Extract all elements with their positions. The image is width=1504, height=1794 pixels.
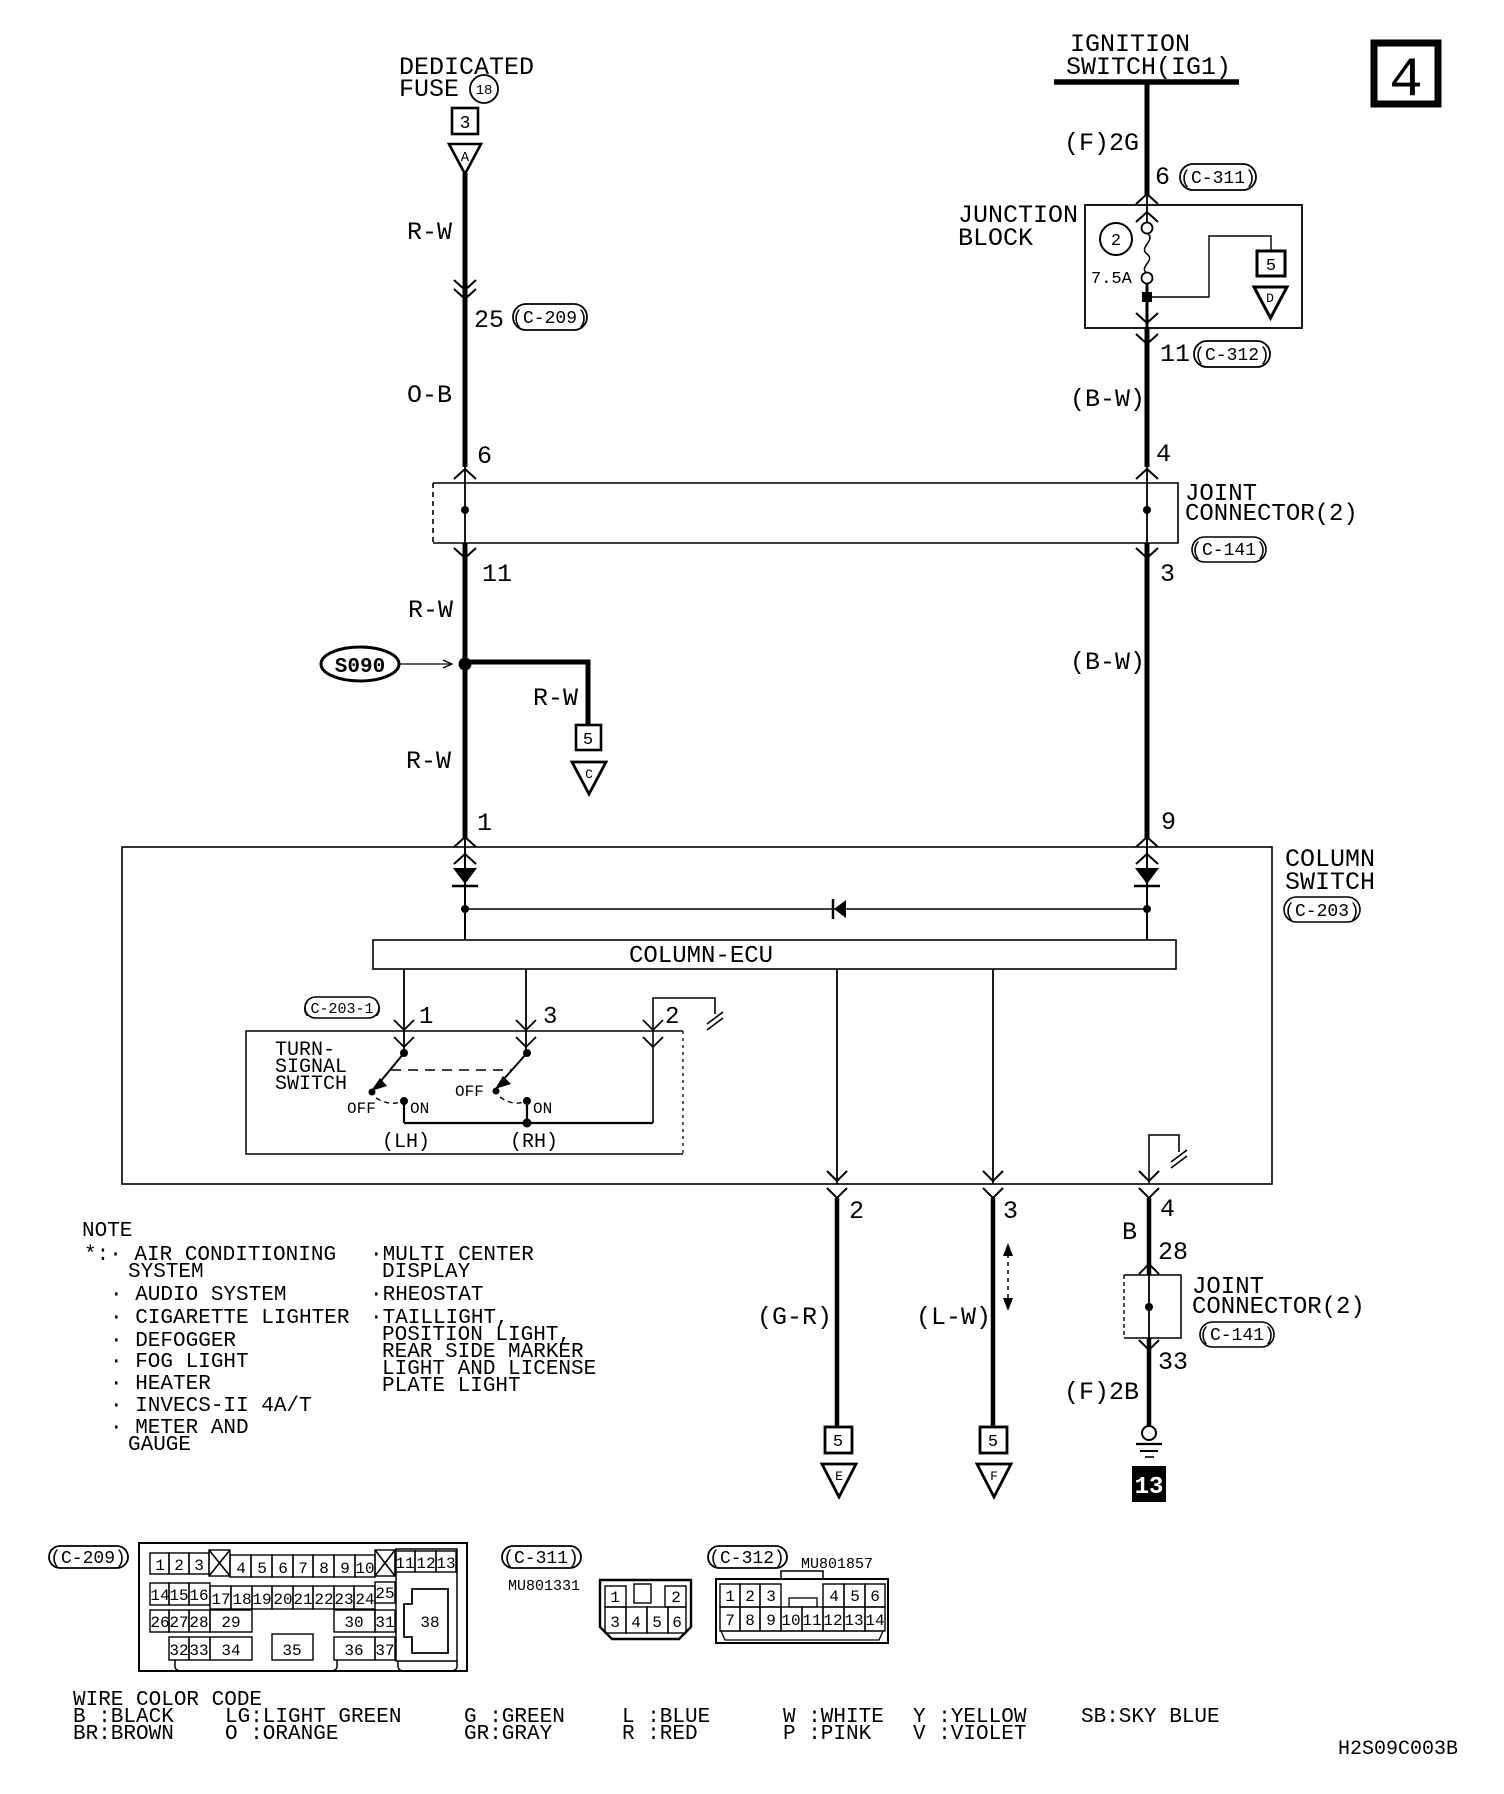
JOINT CONNECTOR (2) C-141 top box [433,483,1178,543]
diode middle pointing left [833,899,846,919]
svg-text:3: 3 [543,1004,557,1031]
svg-text:D: D [1266,291,1274,306]
svg-text:2: 2 [849,1197,864,1226]
svg-text:13: 13 [436,1555,455,1573]
svg-text:30: 30 [344,1614,363,1632]
svg-text:DISPLAY: DISPLAY [382,1261,471,1284]
svg-text:NOTE: NOTE [82,1220,132,1243]
svg-text:4: 4 [829,1588,839,1606]
WIRE COLOR CODE legend [73,1689,1220,1746]
C-311 pin cells [605,1584,686,1633]
svg-text:8: 8 [745,1612,755,1630]
connector label C-312 oval [1194,341,1270,367]
svg-text:· CIGARETTE LIGHTER: · CIGARETTE LIGHTER [110,1307,350,1330]
connector triangle E [822,1464,856,1497]
svg-text:3: 3 [1160,560,1175,589]
svg-text:PLATE LIGHT: PLATE LIGHT [382,1375,521,1398]
LH switch arm [371,1053,404,1091]
svg-text:SYSTEM: SYSTEM [128,1261,204,1284]
COLUMN SWITCH label [1285,845,1375,897]
svg-text:SWITCH: SWITCH [1285,868,1375,897]
svg-text:R :RED: R :RED [622,1723,698,1746]
svg-text:35: 35 [282,1642,301,1660]
svg-text:6: 6 [1155,163,1170,192]
svg-text:1: 1 [725,1588,735,1606]
splice S090 oval [321,647,399,681]
double chevron up at column switch entry right [1136,837,1158,864]
svg-text:BLOCK: BLOCK [958,224,1033,253]
C-209 row 1 pin numbers [155,1555,455,1578]
svg-text:F: F [990,1469,998,1484]
wire ECU to turn signal LH (pin 1) [403,969,405,1053]
svg-text:· AUDIO SYSTEM: · AUDIO SYSTEM [110,1284,286,1307]
connector label C-209 oval [512,304,588,330]
svg-text:P :PINK: P :PINK [783,1723,872,1746]
chassis ground slashes (pin4) [1171,1150,1187,1168]
svg-text:34: 34 [221,1642,240,1660]
COLUMN SWITCH box C-203 [122,847,1272,1184]
C-209 pin cells row 1 [150,1550,456,1577]
svg-text:2: 2 [174,1557,184,1575]
svg-text:14: 14 [150,1587,169,1605]
svg-text:4: 4 [1156,440,1171,469]
svg-text:(C-141): (C-141) [1199,1326,1275,1346]
mechanical link dashed line [391,1069,512,1071]
svg-text:26: 26 [150,1614,169,1632]
wire (F)2B to ground [1147,1338,1152,1426]
svg-text:(L-W): (L-W) [916,1303,991,1332]
svg-text:SB:SKY BLUE: SB:SKY BLUE [1081,1706,1220,1729]
terminal box 3 [452,108,478,134]
svg-text:4: 4 [1160,1195,1175,1224]
wire ECU to pin 2 output [836,969,838,1184]
svg-text:R-W: R-W [407,218,452,247]
svg-text:32: 32 [169,1642,188,1660]
svg-text:24: 24 [355,1591,374,1609]
svg-text:E: E [835,1469,843,1484]
internal bus wire between diodes [465,908,1147,910]
svg-text:31: 31 [375,1614,394,1632]
svg-text:5: 5 [850,1588,860,1606]
svg-text:25: 25 [474,306,504,335]
common wire to pin 2 [404,1122,653,1124]
svg-text:12: 12 [416,1555,435,1573]
svg-text:37: 37 [375,1642,394,1660]
svg-text:O :ORANGE: O :ORANGE [225,1723,338,1746]
svg-text:22: 22 [314,1591,333,1609]
C-209 rows 3-4 pin numbers [150,1614,394,1660]
chevrons down on wire 3 [516,1020,536,1047]
terminal box 5 (F) [980,1427,1007,1453]
svg-text:7: 7 [298,1560,308,1578]
svg-text:13: 13 [844,1612,863,1630]
fuse 7.5A wavy element [1144,233,1150,273]
svg-text:8: 8 [319,1560,329,1578]
svg-text:(F)2G: (F)2G [1064,129,1139,158]
double chevron up at column switch entry left [454,837,476,864]
right main wire middle thick [1145,543,1150,839]
svg-text:2: 2 [745,1588,755,1606]
connector label C-203-1 oval [301,997,382,1018]
svg-text:MU801331: MU801331 [508,1578,580,1595]
svg-text:14: 14 [865,1612,884,1630]
svg-text:COLUMN-ECU: COLUMN-ECU [629,943,773,970]
svg-text:33: 33 [1158,1348,1188,1377]
svg-text:2: 2 [1111,232,1121,251]
connector label C-311 oval [1180,164,1256,190]
svg-text:*:· AIR CONDITIONING: *:· AIR CONDITIONING [84,1244,336,1267]
svg-text:· INVECS-II 4A/T: · INVECS-II 4A/T [110,1395,312,1418]
node: left wire junction in joint connector [461,506,469,514]
svg-text:5: 5 [988,1433,998,1452]
svg-text:12: 12 [823,1612,842,1630]
chevron down below joint connector right [1136,548,1158,558]
svg-text:B: B [1122,1218,1137,1247]
LH switch pivot node [400,1049,408,1057]
joint connector(2) bottom label [1192,1274,1365,1321]
svg-text:11: 11 [482,560,512,589]
C-312 pin numbers [725,1588,884,1630]
svg-text:7.5A: 7.5A [1091,270,1133,289]
svg-text:· FOG LIGHT: · FOG LIGHT [110,1351,249,1374]
svg-text:S090: S090 [335,656,385,679]
svg-text:28: 28 [189,1614,208,1632]
svg-text:18: 18 [232,1591,251,1609]
connector triangle C [572,762,606,794]
node dot right bus [1143,905,1151,913]
connector C-311 pinout body [600,1580,691,1639]
svg-text:(C-203): (C-203) [1284,902,1360,922]
svg-text:6: 6 [278,1560,288,1578]
svg-text:17: 17 [211,1591,230,1609]
thin wire left into diode [464,839,466,940]
svg-text:5: 5 [1266,257,1276,276]
svg-text:3: 3 [460,114,471,134]
chevron up into joint connector right [1136,469,1158,479]
svg-text:11: 11 [395,1555,414,1573]
node junction dot in junction block [1142,292,1152,302]
svg-text:38: 38 [420,1614,439,1632]
svg-text:ON: ON [533,1100,552,1118]
svg-text:5: 5 [833,1433,843,1452]
branch wire R-W to terminal 5/C [465,662,588,725]
svg-text:4: 4 [1389,48,1423,112]
svg-text:7: 7 [725,1612,735,1630]
svg-text:V :VIOLET: V :VIOLET [913,1723,1026,1746]
wire RH ON to common [526,1101,528,1123]
chevron down below junction block [1136,334,1158,344]
chevron down at junction block bottom [1136,313,1158,323]
svg-text:4: 4 [236,1560,246,1578]
C-209 keying X marks [209,1550,395,1576]
svg-text:11: 11 [1160,340,1190,369]
diode left (anode from pin 1) [452,868,478,886]
svg-text:3: 3 [194,1557,204,1575]
svg-text:5: 5 [583,731,593,750]
dashed bidirectional arrow [1003,1243,1013,1311]
chevron down below joint connector left [454,548,476,558]
node dot bottom joint connector [1145,1303,1153,1311]
svg-text:CONNECTOR(2): CONNECTOR(2) [1185,501,1358,528]
wire (L-W) down to terminal F [991,1198,996,1427]
chevrons down at pin3 exit [983,1171,1003,1198]
svg-text:1: 1 [155,1557,165,1575]
page number 4 box [1374,43,1438,112]
LH OFF contact node [369,1089,376,1096]
chevron down below bottom joint connector [1139,1340,1159,1350]
svg-text:(B-W): (B-W) [1070,648,1145,677]
connector label C-312 oval bottom [708,1546,787,1569]
svg-text:OFF: OFF [347,1100,376,1118]
svg-text:GAUGE: GAUGE [128,1434,191,1457]
RH ON contact node [523,1097,531,1105]
svg-text:(B-W): (B-W) [1070,385,1145,414]
connector triangle D [1254,287,1287,318]
LH dashed throw [376,1098,400,1103]
wire (B-W) below junction block [1145,328,1150,467]
svg-text:R-W: R-W [533,684,578,713]
ignition switch feed bar [1054,79,1239,85]
wire LH ON to common [403,1101,405,1123]
connector label C-203 oval [1284,897,1360,922]
svg-text:21: 21 [293,1591,312,1609]
LH ON contact node [400,1097,408,1105]
wire R-W from fuse (left main wire upper) [463,173,468,467]
svg-text:(C-312): (C-312) [709,1549,785,1569]
connector label C-141 oval bottom [1199,1322,1275,1347]
JUNCTION BLOCK label [958,201,1078,253]
svg-text:20: 20 [273,1591,292,1609]
svg-text:29: 29 [221,1614,240,1632]
svg-text:2: 2 [671,1589,681,1607]
C-209 right cavity outline [396,1549,457,1661]
svg-text:1: 1 [610,1589,620,1607]
svg-text:5: 5 [257,1560,267,1578]
node RH common junction [523,1119,532,1128]
wire pin 4 to internal ground [1149,1135,1179,1184]
C-209 pin cells row 2 [150,1582,395,1609]
svg-text:(C-209): (C-209) [512,309,588,329]
C-311 pin numbers [610,1589,682,1632]
svg-text:10: 10 [781,1612,800,1630]
RH dashed throw [500,1097,523,1103]
wire ECU to pin 3 output [992,969,994,1184]
TURN-SIGNAL SWITCH box [246,1031,683,1154]
svg-text:3: 3 [766,1588,776,1606]
svg-text:5: 5 [652,1614,662,1632]
thin wire through joint connector right [1146,467,1148,543]
svg-text:1: 1 [419,1004,433,1031]
IGNITION SWITCH (IG1) label [1066,30,1231,82]
svg-text:H2S09C003B: H2S09C003B [1338,1738,1458,1761]
svg-text:(C-312): (C-312) [1194,346,1270,366]
earth ground symbol [1136,1426,1162,1457]
svg-text:(C-141): (C-141) [1191,541,1267,561]
svg-text:10: 10 [355,1560,374,1578]
chevron up inside junction block top [1136,212,1158,222]
svg-text:BR:BROWN: BR:BROWN [73,1723,174,1746]
fuse lower contact circle [1142,273,1153,284]
node S090 junction dot [459,658,472,671]
connector label C-209 oval bottom [49,1546,128,1569]
svg-text:(F)2B: (F)2B [1064,1378,1139,1407]
svg-text:(RH): (RH) [510,1131,558,1154]
RH switch pivot node [523,1049,531,1057]
svg-text:9: 9 [340,1560,350,1578]
DEDICATED FUSE label [399,53,534,104]
thin wire right into diode [1146,839,1148,940]
svg-text:19: 19 [252,1591,271,1609]
C-209 pin cells rows 3-4 [150,1610,395,1660]
svg-text:33: 33 [189,1642,208,1660]
JOINT CONNECTOR (2) bottom box C-141 [1124,1275,1181,1338]
svg-text:6: 6 [870,1588,880,1606]
svg-text:·RHEOSTAT: ·RHEOSTAT [370,1284,483,1307]
fuse upper contact circle [1142,223,1153,234]
svg-text:(C-209): (C-209) [50,1549,126,1569]
connector label C-141 oval [1191,537,1267,562]
wire pin 2 to internal ground [653,998,715,1123]
svg-text:ON: ON [410,1100,429,1118]
wire B down to joint connector [1147,1198,1152,1275]
svg-text:OFF: OFF [455,1083,484,1101]
svg-text:28: 28 [1158,1238,1188,1267]
svg-text:R-W: R-W [408,596,453,625]
C-209 pin 38 cavity [404,1589,448,1653]
svg-text:6: 6 [477,442,492,471]
svg-text:1: 1 [477,809,492,838]
svg-text:C: C [585,767,593,782]
wire branch to terminal 5/D inside junction block [1147,236,1271,297]
RH switch arm [495,1053,527,1089]
svg-text:GR:GRAY: GR:GRAY [464,1723,553,1746]
svg-text:9: 9 [766,1612,776,1630]
svg-text:(C-311): (C-311) [503,1549,579,1569]
chevrons down on wire 2 [643,1020,663,1047]
svg-text:SWITCH: SWITCH [275,1073,347,1096]
C-209 bottom tabs [175,1660,457,1671]
wire (F)2G from ignition switch [1145,82,1150,196]
circled 2 label [1100,223,1132,255]
svg-text:4: 4 [631,1614,641,1632]
node dot left bus [461,905,469,913]
svg-text:18: 18 [476,83,493,99]
svg-text:3: 3 [1003,1197,1018,1226]
wire ECU to turn signal RH (pin 3) [525,969,527,1053]
svg-text:36: 36 [344,1642,363,1660]
chevron up into joint connector [454,469,476,479]
svg-text:11: 11 [802,1612,821,1630]
double chevron down on left wire [454,280,476,299]
svg-text:16: 16 [189,1587,208,1605]
RH OFF contact node [493,1088,500,1095]
chevrons down at pin4 exit [1139,1171,1159,1198]
svg-text:FUSE: FUSE [399,75,459,104]
svg-text:(G-R): (G-R) [757,1303,832,1332]
terminal box 5 (E) [825,1427,852,1453]
svg-text:SWITCH(IG1): SWITCH(IG1) [1066,53,1231,82]
chevrons down at pin2 exit [827,1171,847,1198]
TURN-SIGNAL SWITCH label [275,1039,347,1096]
svg-text:(LH): (LH) [382,1131,430,1154]
fuse number 18 circled [470,75,498,103]
thin wire through joint connector left [464,467,466,543]
svg-text:O-B: O-B [407,381,452,410]
connector label C-311 oval bottom [502,1546,581,1569]
svg-text:(C-311): (C-311) [1180,169,1256,189]
connector triangle A [449,144,481,174]
node: right wire junction in joint connector [1143,506,1151,514]
chevron up into junction block [1136,194,1158,204]
joint connector(2) label [1185,481,1358,528]
junction block box [1085,205,1302,328]
thin wire through bottom joint connector [1148,1275,1150,1338]
svg-text:A: A [461,150,470,166]
chevron up into joint connector bottom [1139,1264,1159,1274]
arrow from S090 to node [400,660,452,668]
NOTE text block [82,1220,596,1457]
svg-text:15: 15 [169,1587,188,1605]
svg-text:CONNECTOR(2): CONNECTOR(2) [1192,1294,1365,1321]
terminal box 5 (branch C) [576,725,601,750]
svg-text:13: 13 [1135,1474,1164,1501]
terminal box 5 (D) [1257,251,1285,276]
svg-text:· HEATER: · HEATER [110,1373,211,1396]
svg-text:27: 27 [169,1614,188,1632]
wire below fuse [1146,283,1149,328]
thin wire into fuse [1146,196,1148,222]
svg-text:(C-203-1): (C-203-1) [301,1001,382,1018]
chassis ground slashes (pin2) [707,1012,723,1030]
diode right (anode from pin 9) [1134,868,1160,886]
connector triangle F [977,1464,1011,1497]
chevrons down on wire 1 [394,1020,414,1047]
svg-text:23: 23 [334,1591,353,1609]
C-312 pin cells [720,1584,885,1631]
C-209 row 2 pin numbers [150,1585,394,1609]
svg-text:9: 9 [1161,808,1176,837]
svg-text:3: 3 [610,1614,620,1632]
svg-text:2: 2 [665,1004,679,1031]
left main wire middle thick [463,543,468,839]
svg-text:R-W: R-W [406,747,451,776]
connector C-209 pinout body [139,1543,467,1671]
COLUMN-ECU box [373,940,1176,970]
svg-text:25: 25 [375,1585,394,1603]
svg-text:6: 6 [672,1614,682,1632]
wire (G-R) down to terminal E [835,1198,840,1427]
ground reference 13 black box [1132,1466,1166,1502]
connector C-312 pinout body [716,1571,888,1643]
svg-text:· DEFOGGER: · DEFOGGER [110,1330,236,1353]
